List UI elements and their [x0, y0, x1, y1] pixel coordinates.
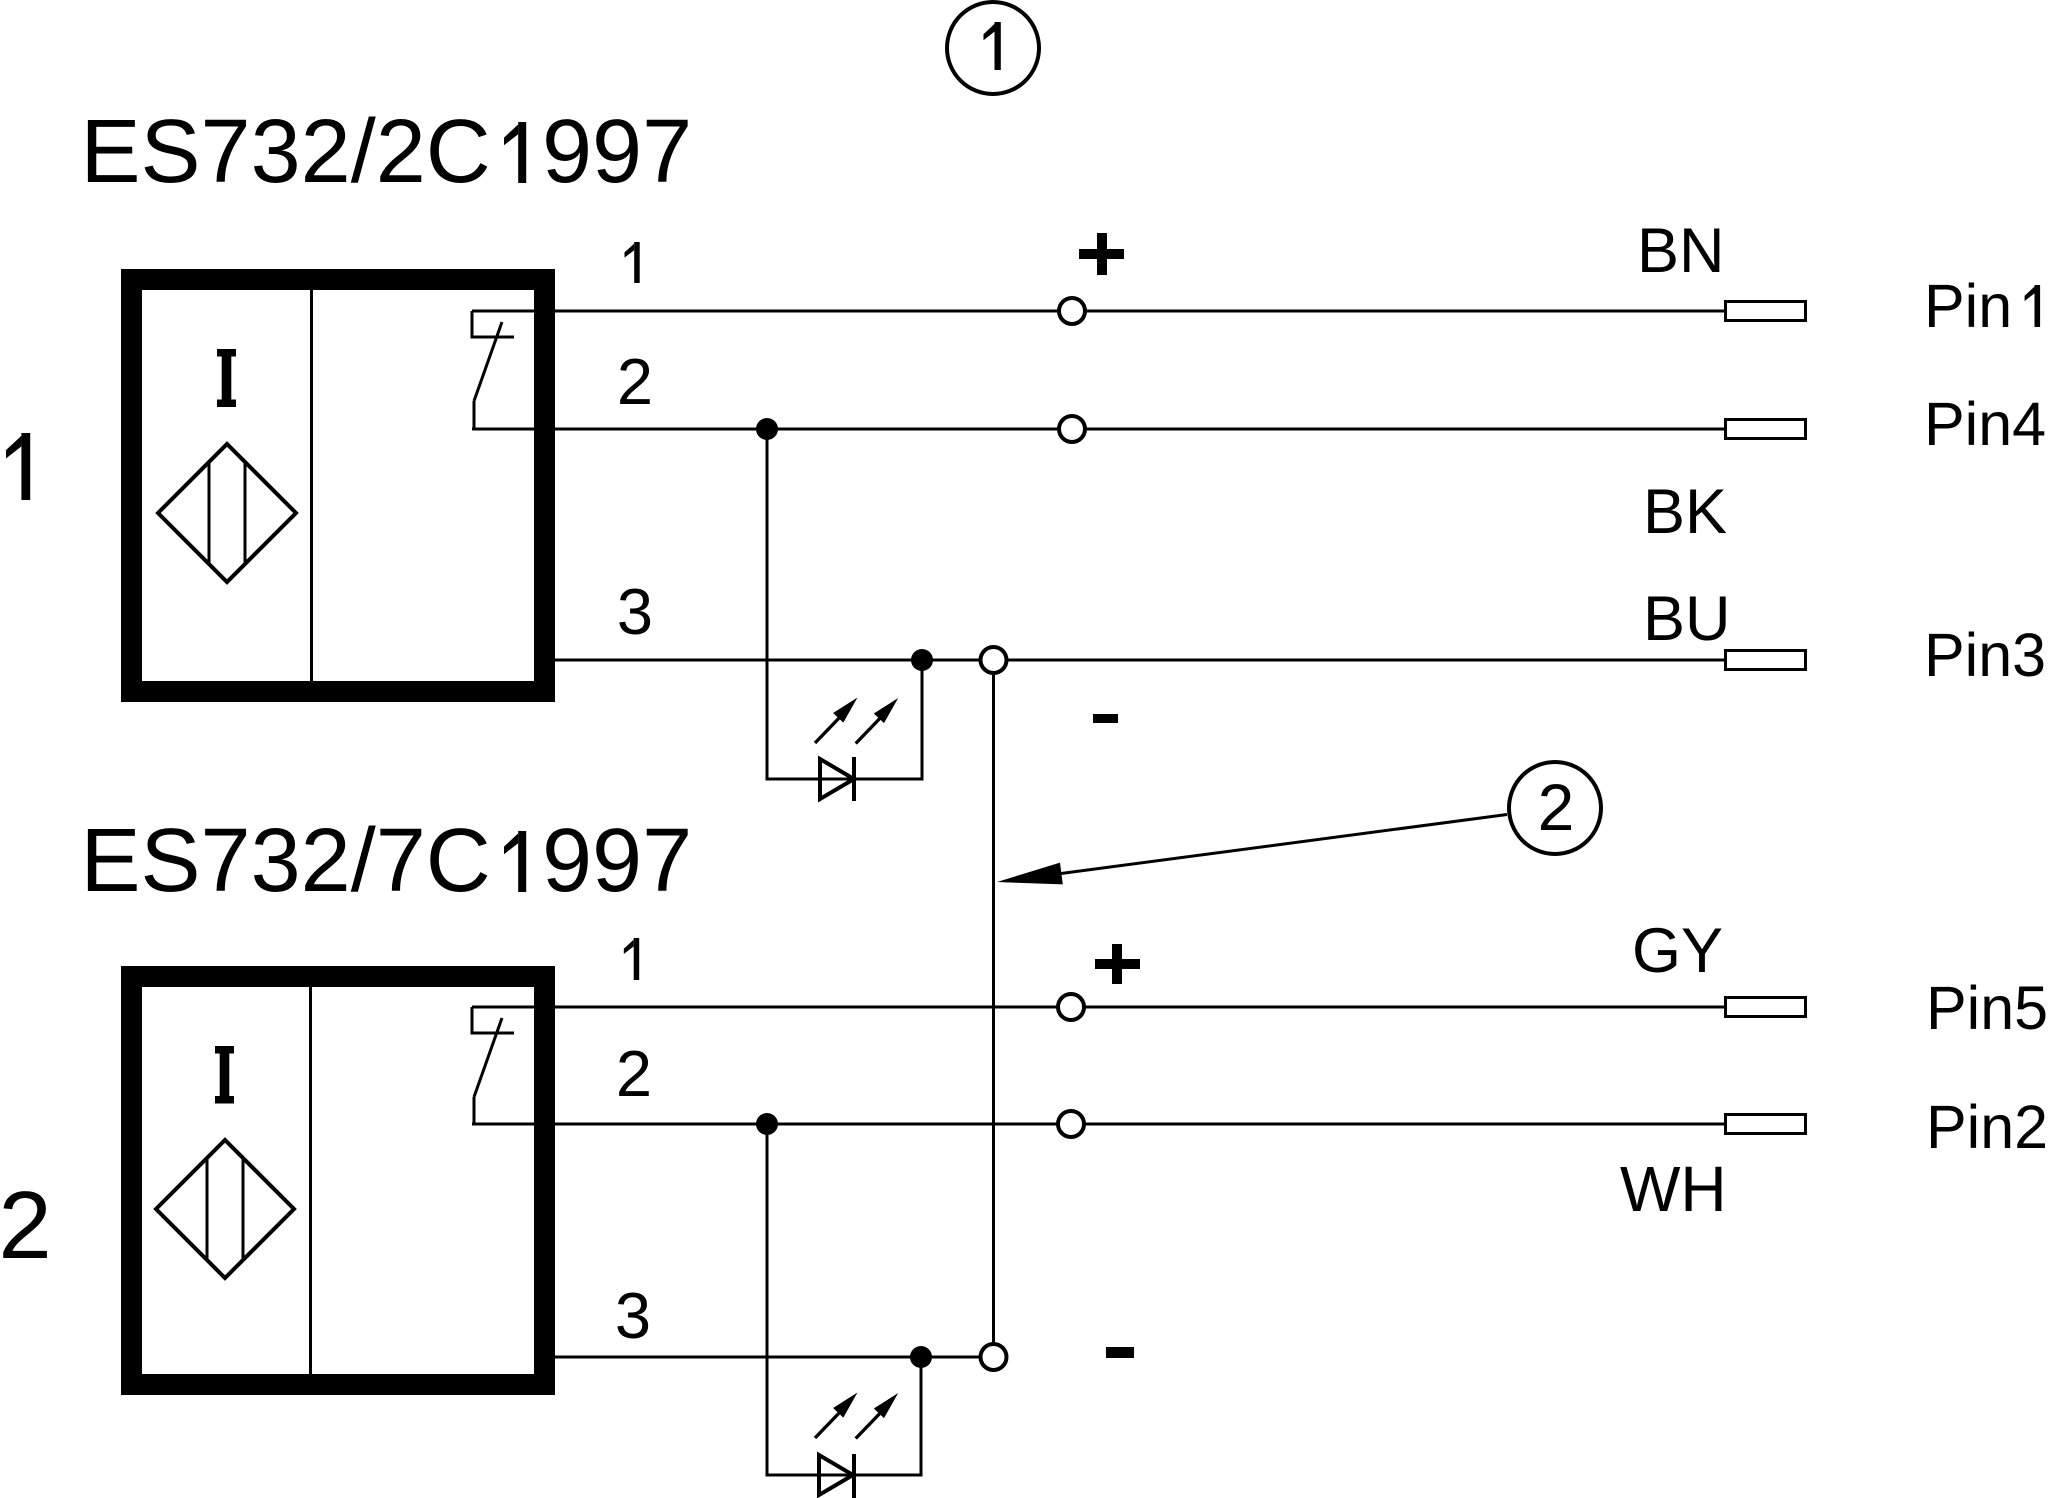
svg-text:3: 3 [615, 1279, 651, 1352]
svg-text:997: 997 [542, 811, 692, 911]
svg-text:2: 2 [616, 1037, 652, 1110]
svg-text:WH: WH [1620, 1153, 1727, 1225]
svg-text:Pin5: Pin5 [1926, 974, 2048, 1042]
svg-text:Pin: Pin [1924, 272, 2012, 340]
svg-text:2: 2 [1538, 770, 1575, 844]
svg-text:BN: BN [1637, 216, 1725, 286]
svg-text:Pin4: Pin4 [1924, 390, 2046, 458]
svg-text:Pin2: Pin2 [1926, 1093, 2048, 1161]
svg-text:2: 2 [0, 1172, 52, 1279]
svg-text:BU: BU [1643, 584, 1731, 654]
svg-text:BK: BK [1643, 477, 1727, 547]
svg-text:2: 2 [617, 345, 653, 418]
svg-text:GY: GY [1632, 916, 1723, 986]
svg-text:ES732/7C: ES732/7C [81, 811, 491, 911]
svg-text:997: 997 [542, 102, 692, 202]
svg-text:3: 3 [617, 575, 653, 648]
svg-text:Pin3: Pin3 [1924, 621, 2046, 689]
svg-text:ES732/2C: ES732/2C [81, 102, 491, 202]
